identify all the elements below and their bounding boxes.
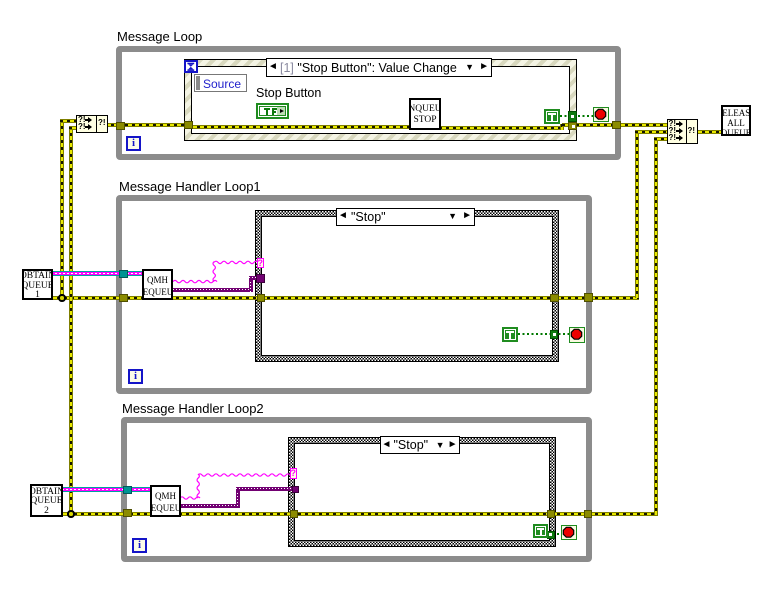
tunnel: boolean out of case 1 [550,330,558,339]
wire: error through Loop1 (from Obtain Queue 1) [50,296,590,300]
QMH Dequeue vi icon (Loop2) [150,485,181,517]
wire: merge errors (left) output into Message Loop [104,123,190,127]
wire: True constant to Loop1 stop terminal [518,333,570,335]
Source label box [194,74,247,92]
label: Stop Button [256,86,321,100]
while loop: Message Handler Loop1 [116,195,592,394]
loop condition terminal (event/Message Loop) [593,107,609,123]
junction dot on Loop2 error branch [67,510,75,518]
wire: variant Loop2 riser [236,487,240,507]
tunnel: error out of Loop2 [584,510,592,518]
wire: True constant to event stop terminal [560,115,594,117]
loop condition terminal (Loop1) [569,327,585,343]
tunnel: queue into Loop1 [119,270,128,278]
tunnel: error into Loop1 [119,294,128,302]
tunnel: error out of Loop1 [584,293,593,302]
wire: branch B vertical (Obtain Queue 2 error up to left merge) [69,126,73,514]
case 2 selector label [380,436,460,454]
tunnel: error into case 2 [290,510,298,518]
wire: queue 2 into Loop2 [62,487,152,492]
tunnel: error into case 1 [257,294,266,303]
tunnel: error into Loop2 [123,509,132,517]
wire: error Loop1 to merge input 2 [635,130,668,134]
wire: error inside event structure (left of Enqueue) [190,125,425,129]
while loop: Message Handler Loop2 [121,417,592,562]
event structure [184,59,577,141]
tunnel: error out of case 1 [550,294,559,303]
wire: error inside event structure (right of Enqueue) [425,126,564,130]
tunnel: error out of Message Loop (right) [612,121,621,129]
wire: queue 1 into Loop1 [51,271,144,276]
junction dot on Loop1 error branch [58,294,66,302]
wire: error jog up before event right tunnel [560,124,564,130]
tunnel: boolean out of event structure [568,111,577,122]
wire: variant Loop1 into tunnel [249,276,259,280]
case structure 1 [255,210,559,362]
wire: error Loop2 exit horizontal [588,512,658,516]
wire: error Loop2 riser [654,137,658,515]
iteration terminal i (Message Loop) [126,136,141,151]
wire: message cluster Loop2 (Dequeue to case selector) [178,468,294,502]
wire: error Loop1 exit horizontal [588,296,639,300]
QMH Dequeue vi icon (Loop1) [142,269,173,301]
wire: variant Loop1 riser [249,276,253,292]
tunnel: error out of case 2 [547,510,555,518]
case 1 selector terminal ? [257,258,265,269]
wire: error through Loop2 (from Obtain Queue 2) [60,512,590,516]
case structure 2 [288,437,556,547]
label: Message Handler Loop1 [119,179,261,194]
merge errors node (left) [76,115,108,133]
tunnel: variant into case 2 [292,486,300,494]
wire: branch A horizontal into left merge input 1 [60,119,77,123]
tunnel: boolean out of case 2 [547,531,555,539]
wire: True constant to Loop2 stop terminal [548,533,562,535]
iteration terminal i (Loop2) [132,538,147,553]
wire: error Loop1 riser [635,130,639,298]
while loop: Message Loop [116,46,621,160]
Enqueue STOP vi icon [409,98,441,130]
wire: error Loop2 to merge input 3 [654,137,668,141]
wire: merged error to Release All Queues [695,130,722,134]
wire: variant Loop2 into tunnel [236,487,293,491]
loop condition terminal (Loop2) [561,525,577,541]
Obtain Queue 1 vi icon [22,269,53,300]
wire: branch B horizontal into left merge input 2 [69,126,77,130]
tunnel: variant into case 1 [256,274,265,283]
case 2 selector terminal ? [290,468,297,479]
wire: error from event tunnel to right merge input 1 [562,123,668,127]
wire: branch A vertical (Obtain Queue 1 error up to left merge) [60,119,64,298]
tunnel: error out of event structure [568,122,577,130]
tunnel: error into event structure (left) [184,121,193,129]
True constant (Loop2) [533,524,548,538]
wire: variant Loop1 horizontal from Dequeue [173,288,253,292]
wire: variant Loop2 horizontal from Dequeue [180,504,240,508]
label: Message Loop [117,29,202,44]
boolean terminal TF (Stop Button) [256,103,289,119]
case 1 selector label [336,208,475,226]
tunnel: queue into Loop2 [123,486,132,494]
event timeout terminal (hourglass) [184,60,198,74]
Release All Queues vi icon [721,105,751,136]
merge errors node (right) [667,119,698,144]
iteration terminal i (Loop1) [128,369,143,384]
True constant (Loop1) [502,327,518,342]
True constant (event) [544,109,560,124]
event selector label [266,58,492,77]
wire: message cluster Loop1 (Dequeue to case selector) [170,256,262,286]
tunnel: error into Message Loop (left) [116,122,125,130]
Obtain Queue 2 vi icon [30,484,63,517]
label: Message Handler Loop2 [122,401,264,416]
